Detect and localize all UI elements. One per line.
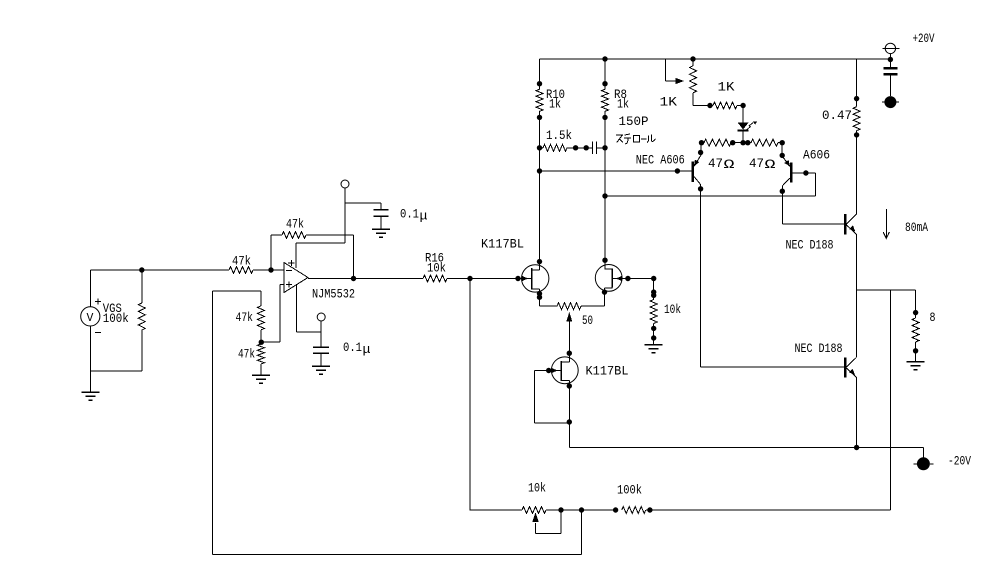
- resistor 8 ohm load: [915, 290, 917, 318]
- wire right gate to bias: [628, 278, 654, 280]
- wire lower D188 base row: [701, 366, 845, 368]
- resistor 47k divider lower: [260, 342, 262, 344]
- svg-text:47k: 47k: [232, 255, 251, 269]
- wire bias bus: [699, 140, 704, 145]
- wire feedback left vertical: [270, 235, 272, 270]
- wire right drain node to right A606 base: [602, 193, 607, 198]
- wire lower D188 collector: [856, 290, 858, 357]
- wiper 10k pot: [532, 513, 539, 523]
- ground gate bias: [645, 344, 663, 346]
- svg-text:+20V: +20V: [913, 32, 935, 46]
- svg-text:Ω: Ω: [724, 157, 735, 172]
- arrow LED emission: [747, 123, 753, 130]
- transistor Q1 K117BL left JFET: [522, 265, 549, 292]
- svg-text:0.1: 0.1: [400, 208, 419, 222]
- wire left JFET drain column: [539, 111, 541, 270]
- svg-text:Ω: Ω: [765, 157, 776, 172]
- node input junction: [139, 267, 144, 272]
- resistor 47k divider upper: [213, 290, 261, 292]
- resistor R16 10k: [423, 275, 447, 282]
- resistor 10k gate bias: [653, 279, 655, 300]
- svg-text:NEC A606: NEC A606: [636, 154, 685, 168]
- svg-text:47k: 47k: [286, 218, 304, 232]
- wire right A606 collector to D188 base: [782, 223, 844, 225]
- wire output row: [857, 289, 916, 291]
- wire R16 junction down: [469, 279, 471, 511]
- svg-text:μ: μ: [363, 343, 372, 357]
- wire feedback to output: [353, 235, 355, 279]
- resistor R8 1k: [604, 59, 606, 89]
- terminal V- supply: [317, 313, 325, 321]
- svg-text:0.1: 0.1: [343, 341, 362, 355]
- terminal -20V: [917, 457, 930, 470]
- svg-text:10k: 10k: [664, 303, 681, 317]
- resistor 1K to LED: [693, 105, 713, 107]
- wire left drain node to left A606 base: [537, 168, 542, 173]
- svg-text:47: 47: [708, 157, 723, 171]
- capacitor supply bypass +20V: [883, 67, 897, 70]
- transistor Q3 K117BL current source: [551, 357, 578, 384]
- capacitor 150P styrol: [591, 141, 593, 154]
- svg-text:K117BL: K117BL: [586, 365, 629, 379]
- svg-text:10k: 10k: [427, 262, 446, 276]
- svg-text:1k: 1k: [617, 98, 629, 112]
- node R16 output junction: [467, 276, 472, 281]
- wire VGS bottom: [89, 326, 91, 371]
- resistor 47ohm right: [751, 139, 778, 146]
- svg-text:1.5k: 1.5k: [546, 129, 572, 143]
- wire to bypass cap top: [345, 202, 381, 204]
- svg-text:100k: 100k: [103, 312, 129, 326]
- svg-text:μ: μ: [420, 210, 429, 224]
- svg-text:80mA: 80mA: [905, 221, 928, 235]
- resistor 47k input series: [229, 267, 253, 274]
- wire left JFET source: [539, 289, 541, 306]
- capacitor 0.1u V+ bypass: [380, 203, 382, 210]
- svg-text:50: 50: [582, 314, 593, 328]
- wire VGS top lead: [89, 270, 91, 307]
- voltage source VGS: [81, 307, 100, 326]
- wire current source gate loop: [534, 370, 548, 372]
- wire op-amp output row: [308, 278, 423, 280]
- diode LED bias: [742, 106, 744, 123]
- wire upper D188 collector to 0.47: [856, 135, 858, 214]
- label styrol katakana: [616, 135, 623, 142]
- svg-text:NEC D188: NEC D188: [786, 239, 834, 253]
- ground V+ bypass: [372, 228, 390, 230]
- resistor R10 1k: [539, 59, 541, 89]
- node inverting input: [268, 267, 273, 272]
- terminal chassis +20V return: [884, 96, 896, 108]
- wire -20V rail: [569, 447, 923, 449]
- wire input node row: [90, 269, 229, 271]
- svg-text:47: 47: [749, 157, 764, 171]
- svg-text:10k: 10k: [528, 482, 546, 496]
- terminal +20V: [885, 43, 895, 53]
- svg-text:47k: 47k: [236, 311, 254, 325]
- svg-text:1K: 1K: [718, 81, 736, 95]
- svg-text:1k: 1k: [549, 98, 561, 112]
- resistor 47ohm left: [704, 139, 731, 146]
- ground VGS: [89, 371, 91, 392]
- svg-text:NJM5532: NJM5532: [312, 288, 355, 302]
- svg-text:150P: 150P: [619, 115, 649, 129]
- op-amp U1 NJM5532: [284, 263, 308, 293]
- svg-text:NEC D188: NEC D188: [795, 342, 843, 356]
- svg-text:V: V: [87, 312, 94, 325]
- terminal V+ supply: [341, 180, 349, 188]
- transistor Q2 K117BL right JFET: [595, 265, 622, 292]
- wire right JFET source: [604, 288, 606, 306]
- resistor 100k feedback: [613, 507, 618, 512]
- wire V- pin: [296, 285, 298, 332]
- wire bottom feedback run: [213, 554, 582, 556]
- svg-text:8: 8: [930, 311, 936, 325]
- potentiometer 10k feedback: [470, 509, 523, 511]
- resistor 1.5k lag compensation: [537, 145, 542, 150]
- arrow 80mA current: [883, 209, 889, 239]
- node op-amp output: [351, 276, 356, 281]
- svg-text:100k: 100k: [617, 484, 642, 498]
- wire bottom feedback rise: [581, 510, 583, 555]
- resistor 47k feedback: [271, 234, 282, 236]
- resistor 100k input shunt: [141, 270, 143, 303]
- wire current source source column: [568, 381, 570, 448]
- wire output feedback drop: [889, 290, 891, 510]
- svg-text:0.47: 0.47: [822, 109, 852, 123]
- wire V+ pin: [296, 242, 345, 244]
- wire non-inverting input path: [280, 284, 284, 286]
- capacitor 0.1u V- bypass: [313, 346, 329, 348]
- svg-text:47k: 47k: [238, 348, 255, 362]
- potentiometer 1K vertical: [690, 56, 695, 61]
- ground V- bypass: [312, 365, 330, 367]
- wiper 1K pot: [664, 59, 666, 81]
- node divider tap: [259, 340, 264, 345]
- ground 8 ohm: [907, 361, 925, 363]
- potentiometer 50 source degeneration: [540, 305, 558, 307]
- svg-text:K117BL: K117BL: [481, 238, 524, 252]
- ground divider: [252, 374, 270, 376]
- wiper 50 pot: [566, 312, 572, 322]
- wire right JFET drain column: [604, 111, 606, 269]
- wire divider to bottom feedback: [212, 291, 214, 555]
- svg-text:A606: A606: [803, 149, 830, 163]
- wire upper D188 emitter to output: [856, 235, 858, 291]
- wire lower D188 emitter to -20V rail: [856, 378, 858, 448]
- svg-text:1K: 1K: [660, 96, 678, 110]
- wire +20V rail: [540, 58, 891, 60]
- resistor 0.47: [856, 59, 858, 107]
- svg-text:-20V: -20V: [948, 455, 971, 469]
